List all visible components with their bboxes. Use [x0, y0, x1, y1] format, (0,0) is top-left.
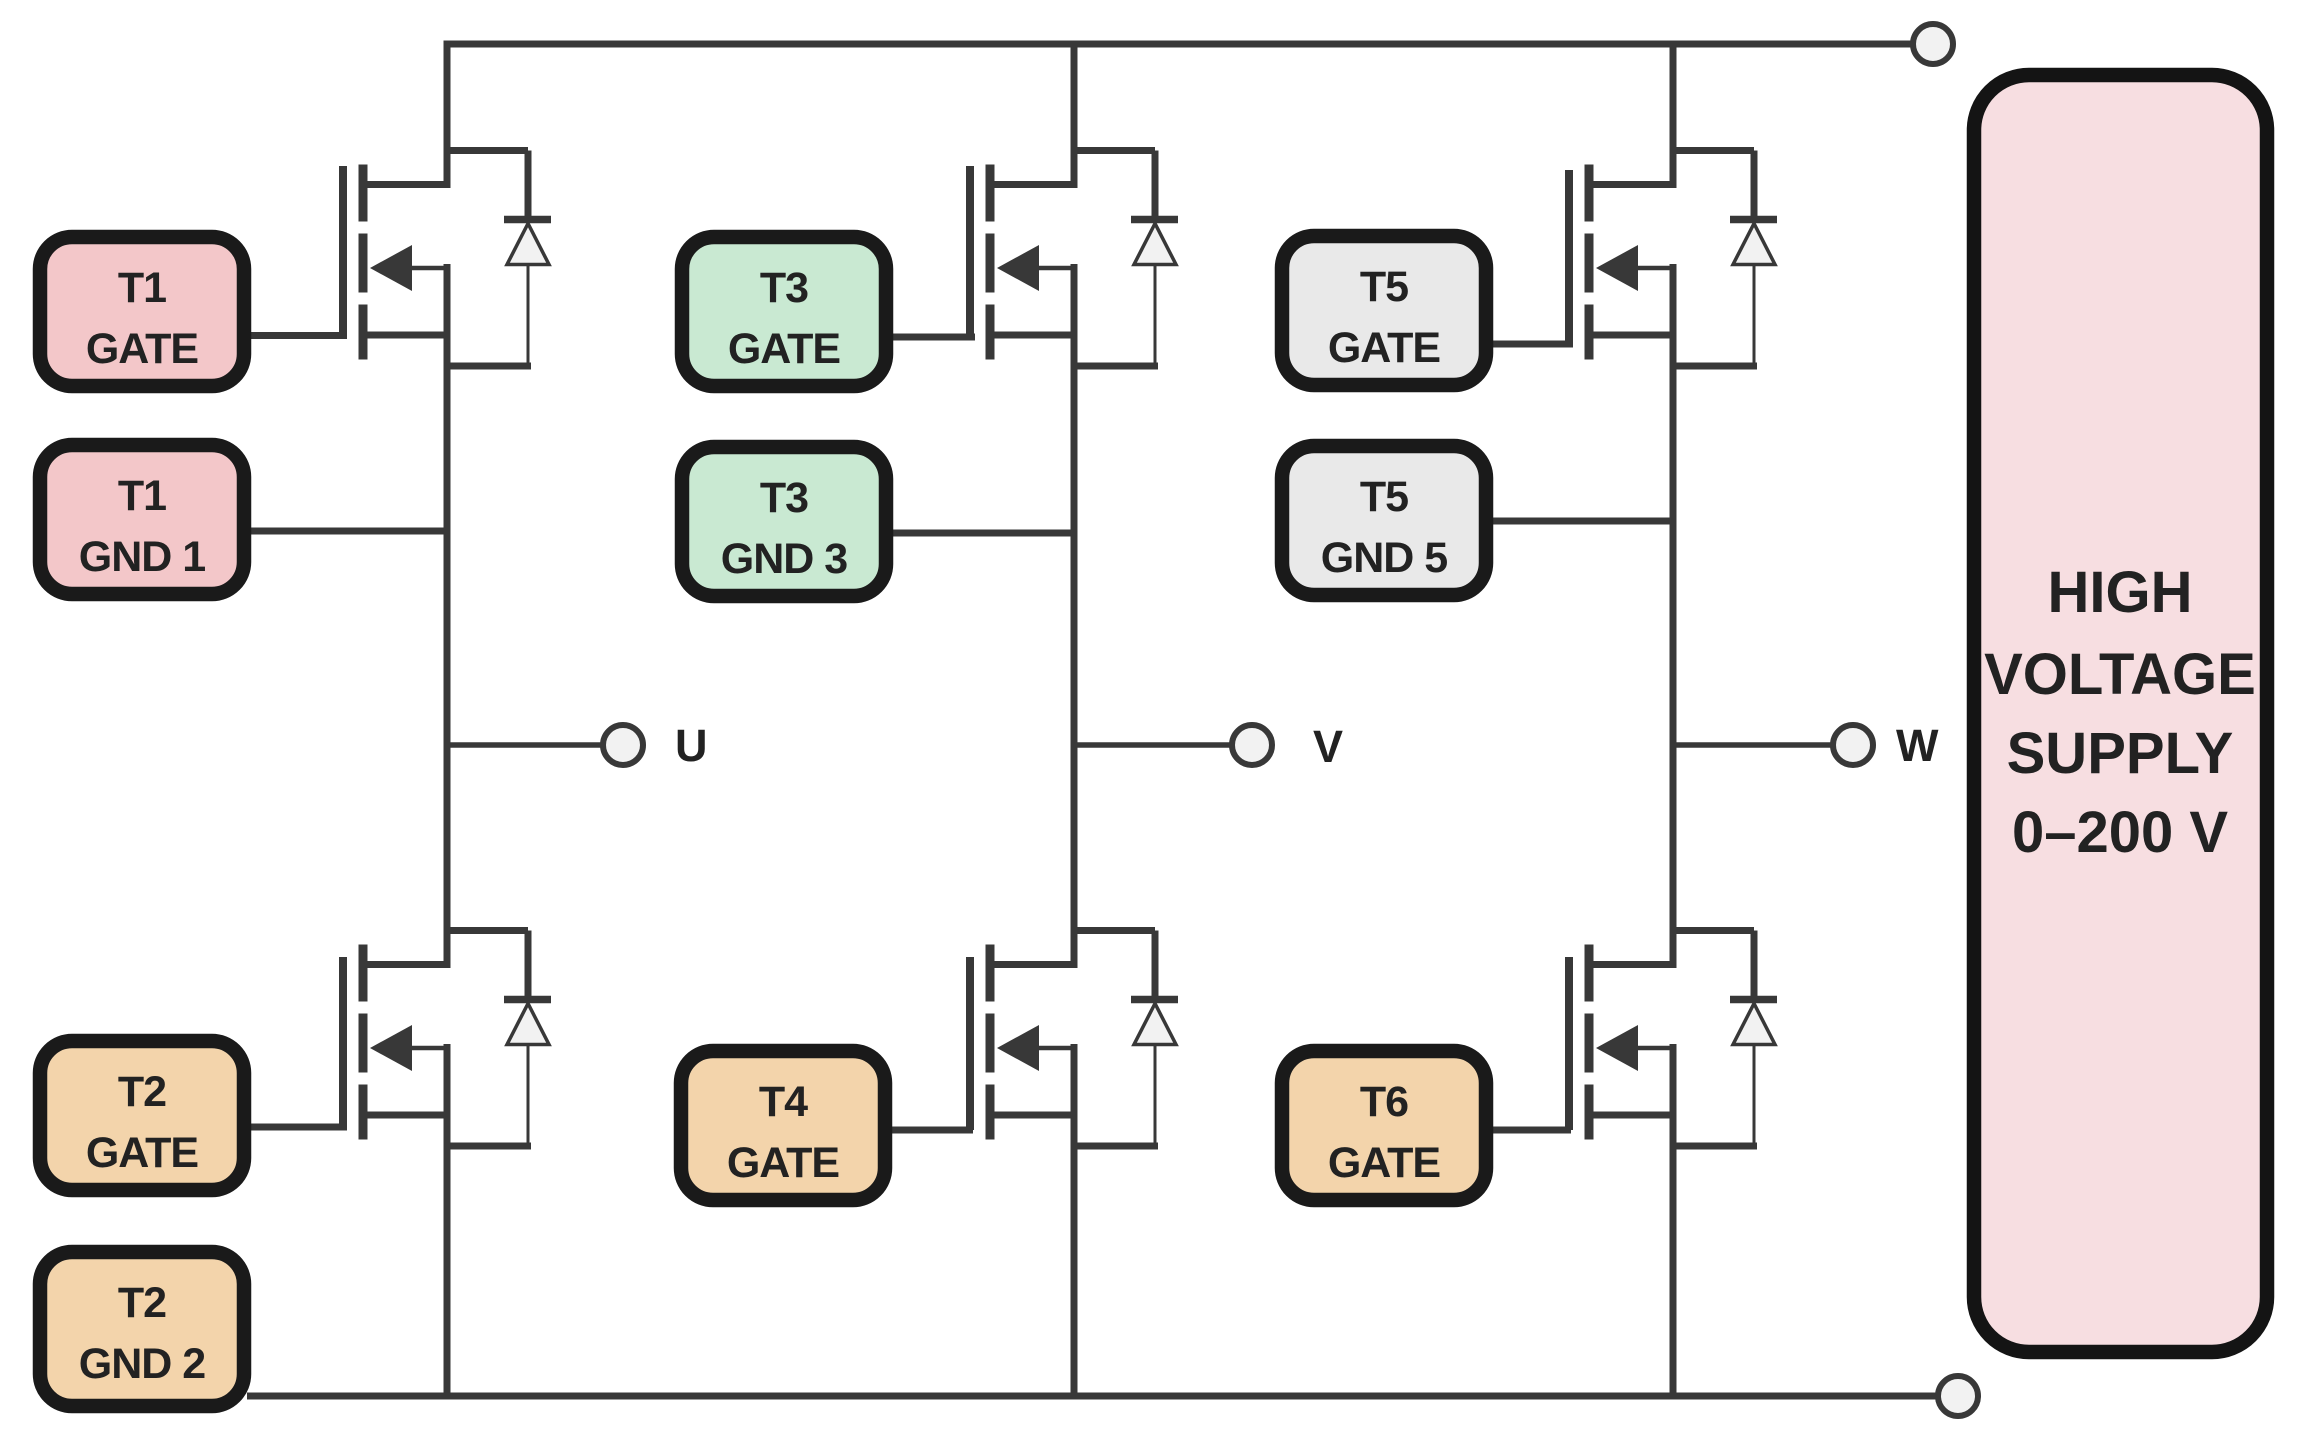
label box T3 GATE: [682, 237, 886, 386]
transistor T4 (N-MOSFET with body diode): [970, 945, 1077, 1140]
svg-text:V: V: [1313, 721, 1343, 772]
body diode of T2: [444, 931, 551, 1147]
node W: [1833, 725, 1873, 765]
svg-text:0–200 V: 0–200 V: [2012, 800, 2228, 865]
wire phase U output wire: [447, 742, 604, 748]
wire T3 GND 3 sense lead: [889, 530, 1074, 537]
svg-text:GND 3: GND 3: [721, 535, 848, 583]
body diode of T6: [1670, 931, 1777, 1147]
svg-text:T4: T4: [759, 1078, 808, 1126]
label box T5 GATE: [1282, 236, 1486, 385]
label box T6 GATE: [1282, 1051, 1486, 1200]
svg-text:GATE: GATE: [728, 325, 840, 373]
svg-text:W: W: [1896, 720, 1939, 771]
wire leg 3 drain wire from top rail: [1670, 41, 1677, 189]
wire leg 1 midpoint wire (high-side source to low-side drain): [444, 264, 451, 968]
transistor T1 (N-MOSFET with body diode): [343, 165, 450, 360]
wire leg 3 low-side source wire to bottom rail: [1670, 1044, 1677, 1400]
svg-text:SUPPLY: SUPPLY: [2007, 721, 2234, 786]
wire leg 1 drain wire from top rail: [444, 41, 451, 189]
transistor T2 (N-MOSFET with body diode): [343, 945, 450, 1140]
svg-text:GATE: GATE: [1328, 1139, 1440, 1187]
wire leg 1 low-side source wire to bottom rail: [444, 1044, 451, 1400]
high voltage supply block: [1974, 75, 2267, 1352]
svg-text:GATE: GATE: [86, 1129, 198, 1177]
wire T1 gate lead: [248, 332, 347, 339]
label box T3 GND 3: [682, 447, 886, 596]
wire leg 2 midpoint wire (high-side source to low-side drain): [1071, 264, 1078, 968]
body diode of T4: [1071, 931, 1178, 1147]
wire T3 gate lead: [889, 334, 975, 341]
wire leg 2 drain wire from top rail: [1071, 41, 1078, 189]
wire phase W output wire: [1673, 742, 1834, 748]
node U: [603, 725, 643, 765]
svg-text:HIGH: HIGH: [2048, 560, 2193, 625]
svg-text:U: U: [675, 720, 708, 771]
transistor T6 (N-MOSFET with body diode): [1569, 945, 1676, 1140]
wire T6 gate lead: [1492, 1127, 1571, 1134]
node terminal + (top right): [1913, 24, 1953, 64]
wire leg 2 low-side source wire to bottom rail: [1071, 1044, 1078, 1400]
body diode of T5: [1670, 151, 1777, 367]
label box T2 GATE: [40, 1041, 244, 1190]
wire T2 gate lead: [246, 1124, 347, 1131]
wire T4 gate lead: [890, 1127, 973, 1134]
svg-text:T3: T3: [760, 474, 808, 522]
svg-text:T2: T2: [118, 1068, 166, 1116]
label box T1 GND 1: [40, 445, 244, 594]
svg-text:T6: T6: [1360, 1078, 1408, 1126]
svg-text:GND 1: GND 1: [79, 533, 206, 581]
svg-text:T1: T1: [118, 472, 166, 520]
node terminal - (bottom right): [1938, 1376, 1978, 1416]
label box T2 GND 2: [40, 1252, 244, 1406]
label box T1 GATE: [40, 237, 244, 386]
transistor T5 (N-MOSFET with body diode): [1569, 165, 1676, 360]
svg-text:T2: T2: [118, 1279, 166, 1327]
svg-text:T5: T5: [1360, 263, 1408, 311]
svg-text:T5: T5: [1360, 473, 1408, 521]
label box T5 GND 5: [1282, 446, 1486, 595]
body diode of T1: [444, 151, 551, 367]
wire T1 GND 1 sense lead: [248, 528, 447, 535]
svg-text:GND 5: GND 5: [1321, 534, 1448, 582]
wire bottom DC bus rail (-): [247, 1393, 1939, 1400]
wire T5 gate lead: [1492, 341, 1573, 348]
svg-text:GATE: GATE: [86, 325, 198, 373]
node V: [1232, 725, 1272, 765]
svg-text:VOLTAGE: VOLTAGE: [1984, 642, 2256, 707]
wire T5 GND 5 sense lead: [1492, 518, 1673, 525]
body diode of T3: [1071, 151, 1178, 367]
wire top DC bus rail (+): [444, 41, 1915, 48]
wire phase V output wire: [1074, 742, 1233, 748]
svg-text:GND 2: GND 2: [79, 1340, 206, 1388]
label box T4 GATE: [681, 1051, 885, 1200]
svg-text:T1: T1: [118, 264, 166, 312]
svg-text:GATE: GATE: [727, 1139, 839, 1187]
svg-text:T3: T3: [760, 264, 808, 312]
svg-text:GATE: GATE: [1328, 324, 1440, 372]
wire leg 3 midpoint wire (high-side source to low-side drain): [1670, 264, 1677, 968]
transistor T3 (N-MOSFET with body diode): [970, 165, 1077, 360]
